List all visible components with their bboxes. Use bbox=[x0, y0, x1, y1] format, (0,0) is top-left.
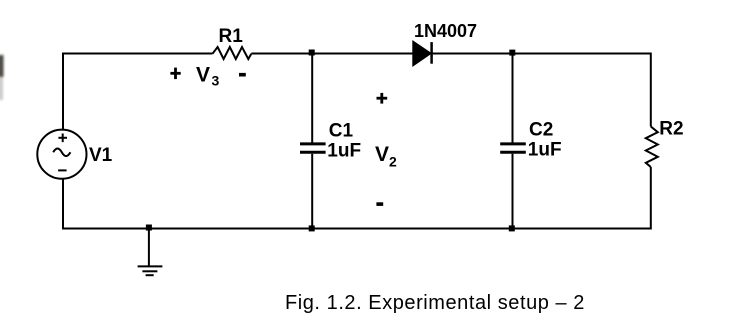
svg-text:1uF: 1uF bbox=[528, 140, 562, 161]
wire top right (diode to right corner) bbox=[432, 53, 651, 55]
node dot top C2 junction bbox=[509, 50, 515, 56]
wire right vertical upper (top corner to R2) bbox=[650, 53, 652, 127]
wire right vertical lower (R2 to bottom corner) bbox=[650, 167, 652, 230]
svg-text:C1: C1 bbox=[329, 120, 354, 141]
svg-text:2: 2 bbox=[389, 154, 397, 170]
diode D1 1N4007 bbox=[413, 41, 432, 66]
label C1 value 1uF bbox=[327, 120, 361, 161]
svg-text:V: V bbox=[375, 143, 389, 166]
resistor R1 bbox=[213, 47, 252, 59]
node dot bottom C2 junction bbox=[509, 225, 515, 231]
label V3 bbox=[196, 63, 220, 88]
wire C1 branch upper bbox=[311, 54, 313, 143]
wire left vertical lower (V1 circle to bottom wire) bbox=[62, 179, 64, 230]
wire ground stub bbox=[148, 229, 150, 267]
source V1 bbox=[37, 130, 86, 179]
wire bottom horizontal bbox=[63, 228, 651, 230]
svg-text:1N4007: 1N4007 bbox=[414, 21, 477, 41]
svg-text:1uF: 1uF bbox=[327, 141, 361, 162]
svg-text:3: 3 bbox=[212, 73, 220, 89]
svg-text:C2: C2 bbox=[529, 120, 553, 141]
ground bbox=[138, 266, 163, 275]
wire C2 branch lower bbox=[512, 154, 514, 229]
node V3 plus sign bbox=[170, 68, 180, 80]
wire C1 branch lower bbox=[311, 154, 313, 229]
capacitor C1 bbox=[300, 144, 326, 152]
node V3 minus sign bbox=[239, 73, 246, 77]
node dot ground junction bbox=[146, 225, 152, 231]
node V2 minus sign bbox=[376, 202, 383, 206]
svg-text:V: V bbox=[196, 63, 210, 86]
label C2 value 1uF bbox=[528, 120, 562, 161]
node V2 plus sign bbox=[377, 93, 388, 104]
label V2 bbox=[375, 143, 397, 169]
svg-text:R1: R1 bbox=[219, 26, 244, 47]
wire top middle (R1 to diode) bbox=[251, 53, 413, 55]
svg-text:V1: V1 bbox=[89, 145, 113, 166]
edge artifact (decorative) bbox=[0, 55, 4, 100]
resistor R2 bbox=[646, 127, 658, 168]
capacitor C2 bbox=[500, 144, 526, 152]
wire left vertical upper (top corner to V1 circle) bbox=[62, 53, 64, 130]
node dot top C1 junction bbox=[309, 50, 315, 56]
svg-text:R2: R2 bbox=[659, 118, 683, 139]
wire C2 branch upper bbox=[512, 54, 514, 143]
svg-text:Fig. 1.2. Experimental setup –: Fig. 1.2. Experimental setup – 2 bbox=[285, 292, 585, 314]
node dot bottom C1 junction bbox=[309, 225, 315, 231]
wire top-left horizontal (V1 top to R1) bbox=[63, 53, 213, 55]
